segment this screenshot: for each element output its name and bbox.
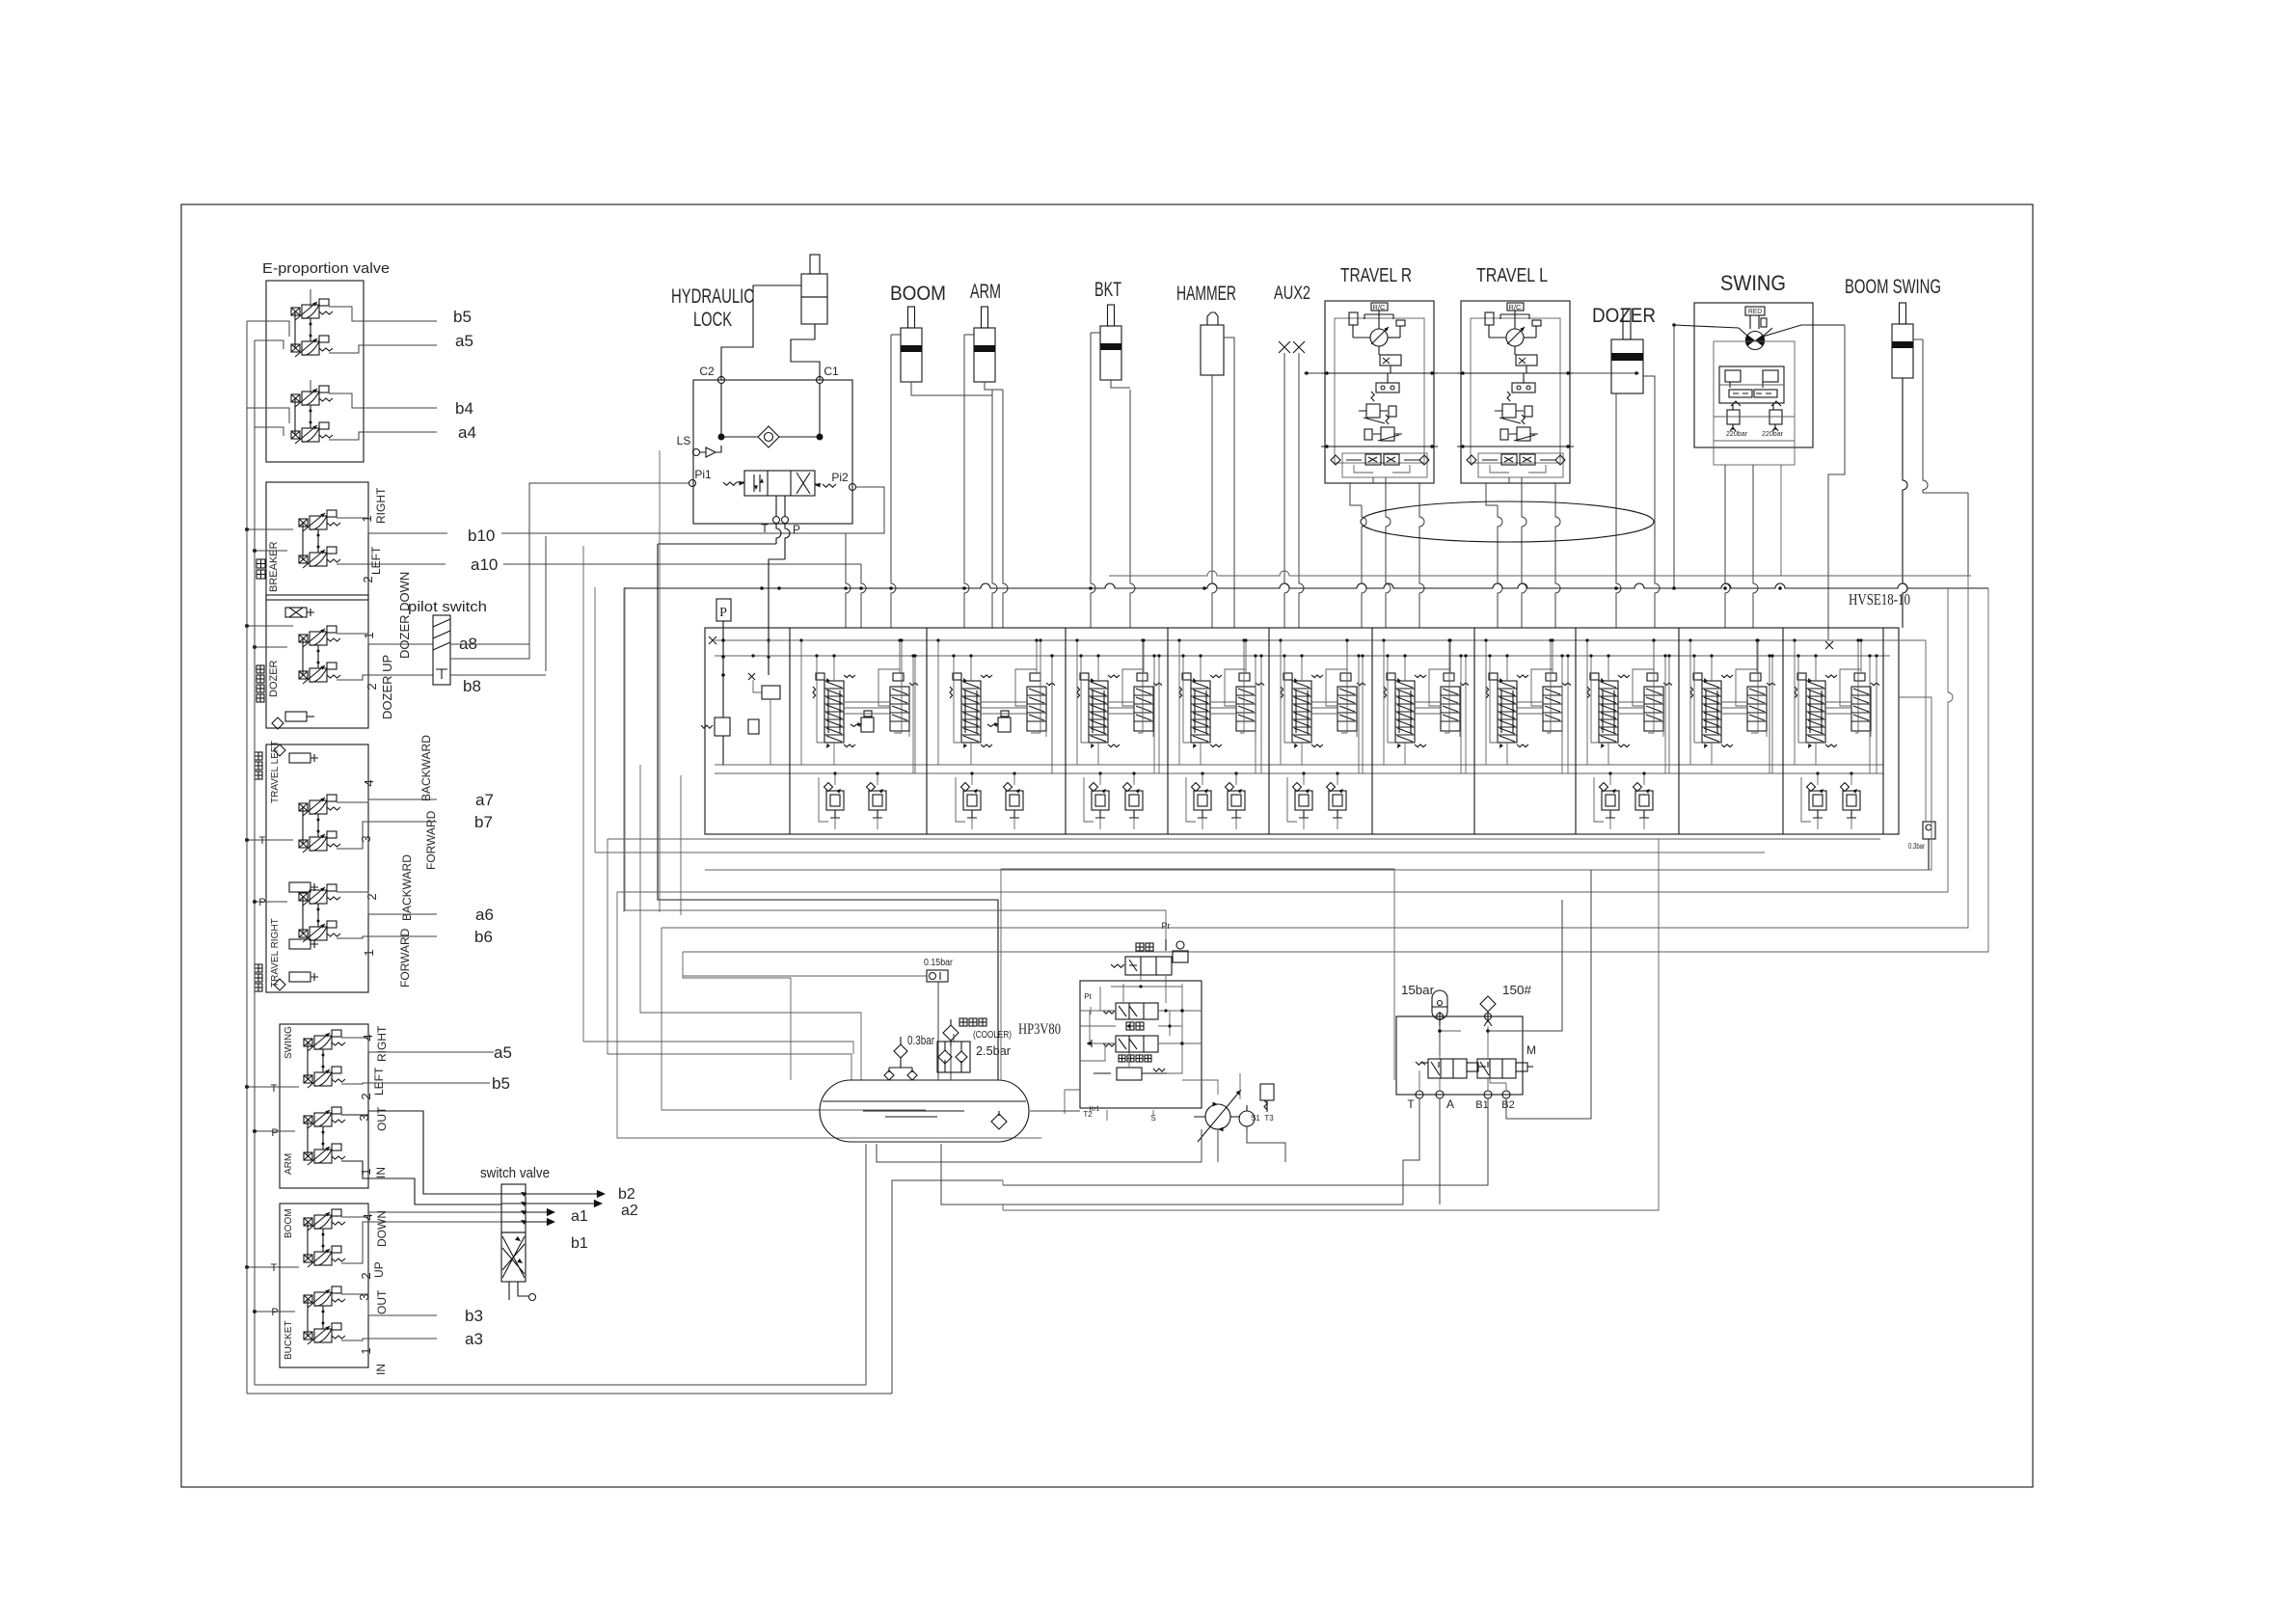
svg-text:FORWARD: FORWARD — [398, 928, 412, 988]
svg-text:DOWN: DOWN — [375, 1210, 389, 1247]
block internal wires — [1440, 1026, 1488, 1059]
svg-text:b3: b3 — [465, 1307, 483, 1325]
pump control block outer — [1001, 869, 1394, 1080]
BOOM hoses — [891, 335, 896, 628]
svg-text:AUX2: AUX2 — [1274, 284, 1310, 304]
svg-text:0.3bar: 0.3bar — [1908, 842, 1925, 851]
svg-text:2: 2 — [365, 893, 379, 900]
TRAVEL R travel motor — [1370, 329, 1388, 346]
svg-text:P: P — [258, 897, 265, 908]
section compensator x=1105 — [1134, 687, 1153, 731]
0.3bar tank relief — [1923, 822, 1935, 839]
svg-text:OUT: OUT — [375, 1289, 389, 1314]
solenoid valve 2 — [1477, 1059, 1516, 1078]
svg-text:RED: RED — [1748, 309, 1762, 315]
svg-text:S: S — [1150, 1114, 1155, 1123]
section compensator x=1423 — [1441, 687, 1460, 731]
inter travel pilot line — [1304, 372, 1321, 374]
section relief valves x=1105 — [1092, 791, 1109, 810]
svg-text:a4: a4 — [458, 423, 476, 442]
TRAVEL L counterbalance — [1478, 453, 1563, 477]
hydraulic lock cylinder — [810, 255, 820, 274]
svg-text:15bar: 15bar — [1401, 983, 1435, 997]
TRAVEL L pilot bus — [1457, 372, 1574, 374]
wires below band — [608, 838, 1880, 840]
BREAKER pilot valve block — [266, 482, 368, 600]
svg-text:switch valve: switch valve — [480, 1165, 550, 1181]
drawing border frame — [181, 204, 2033, 1487]
svg-text:220bar: 220bar — [1762, 431, 1784, 438]
TRAVEL L brake valve — [1516, 355, 1537, 365]
section relief valves x=1634 — [1602, 791, 1619, 810]
svg-text:1: 1 — [360, 515, 374, 522]
ports — [1416, 1091, 1423, 1098]
section spool x=1105 — [1089, 681, 1108, 743]
outer return loop — [1003, 839, 1659, 1210]
svg-text:RIGHT: RIGHT — [375, 1025, 389, 1062]
section compensator x=1529 — [1543, 687, 1562, 731]
svg-text:BOOM SWING: BOOM SWING — [1845, 276, 1941, 298]
svg-text:LS: LS — [677, 434, 691, 447]
svg-text:b8: b8 — [463, 677, 481, 695]
TRAVEL L travel motor — [1506, 329, 1524, 346]
TRAVEL R brake valve — [1380, 355, 1401, 365]
solenoid block — [1396, 1016, 1523, 1095]
svg-text:T: T — [761, 522, 769, 535]
svg-text:0.3bar: 0.3bar — [907, 1033, 934, 1047]
svg-text:a2: a2 — [621, 1203, 638, 1219]
section compensator x=1634 — [1644, 687, 1663, 731]
DOZER pilot valve block — [266, 595, 368, 728]
svg-text:C1: C1 — [824, 365, 839, 378]
pump relief — [1260, 1084, 1274, 1100]
svg-text:T: T — [1407, 1097, 1415, 1111]
pilot gear pump — [1239, 1111, 1255, 1126]
svg-text:M: M — [1526, 1043, 1536, 1057]
svg-text:0.15bar: 0.15bar — [924, 958, 954, 968]
svg-text:P: P — [719, 606, 727, 620]
Pi2 pilot wire — [846, 487, 884, 533]
svg-text:b10: b10 — [468, 527, 495, 545]
SWING-ARM pilot valve block — [280, 1024, 368, 1188]
wires cylinder to lock block — [721, 285, 801, 380]
svg-text:T: T — [271, 1083, 278, 1095]
svg-text:IN: IN — [374, 1167, 388, 1178]
hydraulic lock block — [693, 380, 852, 524]
swing motor — [1746, 332, 1765, 350]
svg-text:P: P — [793, 523, 800, 536]
svg-text:T: T — [259, 835, 266, 847]
pump block internal wires — [1090, 975, 1182, 1073]
svg-text:b1: b1 — [571, 1235, 588, 1252]
swing inner box — [1714, 341, 1795, 465]
svg-text:C2: C2 — [699, 365, 715, 378]
svg-text:ARM: ARM — [970, 281, 1001, 303]
solenoid valve 1 — [1428, 1059, 1467, 1078]
band inner top rails — [715, 639, 1926, 641]
Pi1 pilot wire to left — [450, 483, 689, 659]
svg-text:2: 2 — [359, 1272, 373, 1279]
svg-text:Pt: Pt — [1084, 992, 1092, 1001]
TRAVEL R outlet wires — [1373, 477, 1386, 501]
svg-text:T3: T3 — [1264, 1114, 1274, 1123]
svg-text:HVSE18-10: HVSE18-10 — [1849, 590, 1910, 609]
svg-text:IN: IN — [374, 1364, 388, 1375]
svg-text:2: 2 — [361, 576, 375, 582]
svg-text:BOOM: BOOM — [284, 1208, 294, 1238]
swing makeup network — [1719, 366, 1784, 403]
TRAVEL R lower bus — [1321, 446, 1438, 447]
P line down into inlet — [785, 524, 790, 559]
svg-text:a7: a7 — [475, 791, 494, 809]
left pilot bus wires — [246, 321, 248, 1394]
svg-text:a5: a5 — [494, 1043, 512, 1062]
descending wires left — [623, 588, 625, 912]
T wire to tank — [776, 524, 781, 544]
BOOM-BUCKET pilot valve block — [280, 1204, 368, 1367]
section spool x=961 — [961, 681, 981, 743]
swing pilot wire left — [1674, 325, 1739, 328]
pump servo piston — [1117, 1068, 1142, 1080]
svg-text:DOZER UP: DOZER UP — [380, 655, 394, 719]
power control valve — [1116, 1036, 1158, 1052]
svg-text:TRAVEL RIGHT: TRAVEL RIGHT — [270, 918, 281, 988]
svg-text:SWING: SWING — [284, 1026, 294, 1059]
swing relief valves — [1727, 410, 1740, 424]
svg-text:R/C: R/C — [1373, 305, 1386, 311]
section compensator x=1741 — [1747, 687, 1767, 731]
svg-text:Pr: Pr — [1162, 921, 1171, 931]
svg-text:b2: b2 — [618, 1186, 635, 1203]
svg-text:Pi1: Pi1 — [694, 468, 712, 481]
svg-text:BKT: BKT — [1094, 279, 1121, 301]
svg-text:(COOLER): (COOLER) — [973, 1030, 1012, 1041]
svg-text:T: T — [271, 1262, 278, 1274]
swivel joint ellipse — [1361, 501, 1654, 542]
svg-text:TRAVEL L: TRAVEL L — [1476, 265, 1548, 286]
svg-text:HYDRAULIC: HYDRAULIC — [671, 285, 754, 308]
svg-text:BOOM: BOOM — [890, 283, 946, 305]
svg-text:RIGHT: RIGHT — [374, 487, 388, 524]
svg-text:LOCK: LOCK — [693, 309, 732, 331]
inlet section internals — [716, 599, 731, 621]
svg-text:b5: b5 — [492, 1074, 510, 1093]
svg-text:P: P — [271, 1127, 278, 1139]
0.3bar breather — [894, 1044, 907, 1058]
TRAVEL R pilot bus — [1321, 372, 1438, 374]
wires from block — [1403, 1098, 1419, 1160]
BKT cylinder — [1108, 305, 1115, 326]
section spool x=1634 — [1599, 681, 1618, 743]
svg-text:220bar: 220bar — [1726, 431, 1748, 438]
section relief valves x=819 — [826, 791, 844, 810]
svg-text:P: P — [271, 1307, 278, 1318]
svg-text:S1: S1 — [1251, 1114, 1260, 1123]
band inner bottom rails — [715, 764, 1883, 766]
svg-text:TRAVEL R: TRAVEL R — [1340, 265, 1412, 286]
lock pilot spool valve — [744, 471, 815, 496]
svg-text:SWING: SWING — [1720, 271, 1786, 295]
svg-text:E-proportion valve: E-proportion valve — [262, 260, 390, 277]
svg-text:BREAKER: BREAKER — [268, 541, 280, 592]
pump internal mesh — [1080, 984, 1202, 1061]
LS port — [693, 449, 700, 456]
TRAVEL pilot valve block — [266, 744, 368, 992]
hydraulic tank — [820, 1080, 1029, 1142]
TRAVEL L relief 2 — [1517, 427, 1530, 441]
svg-text:Pi2: Pi2 — [831, 471, 849, 484]
svg-text:a5: a5 — [455, 332, 473, 350]
main pump — [1205, 1104, 1230, 1129]
long pilot drop wires — [594, 587, 596, 853]
suction line from tank — [1030, 1110, 1080, 1112]
svg-text:1: 1 — [359, 1347, 373, 1354]
svg-text:OUT: OUT — [375, 1106, 389, 1131]
svg-text:BUCKET: BUCKET — [284, 1320, 294, 1360]
svg-text:a10: a10 — [471, 555, 498, 574]
TRAVEL R relief 2 — [1381, 427, 1394, 441]
svg-text:LEFT: LEFT — [372, 1067, 386, 1096]
section compensator x=1849 — [1851, 687, 1871, 731]
svg-text:BACKWARD: BACKWARD — [400, 854, 414, 921]
T and P ports — [773, 517, 780, 524]
svg-text:a1: a1 — [571, 1208, 588, 1225]
section spool x=1316 — [1292, 681, 1311, 743]
svg-text:a3: a3 — [465, 1330, 483, 1348]
svg-text:4: 4 — [362, 779, 376, 786]
svg-text:UP: UP — [372, 1261, 386, 1278]
TRAVEL L shuttle — [1512, 383, 1535, 392]
svg-text:2: 2 — [359, 1093, 373, 1099]
pump outlet lines — [1217, 1129, 1219, 1162]
section spool x=1849 — [1806, 681, 1825, 743]
TRAVEL L outlet wires — [1509, 477, 1522, 501]
TRAVEL R counterbalance — [1342, 453, 1427, 477]
LS valve — [1116, 1003, 1158, 1019]
section relief valves x=1849 — [1809, 791, 1826, 810]
section spool x=819 — [824, 681, 844, 743]
svg-text:B2: B2 — [1501, 1099, 1514, 1111]
svg-text:TRAVEL LEFT: TRAVEL LEFT — [270, 741, 281, 803]
svg-text:1: 1 — [359, 1168, 373, 1175]
swing pilot wire right — [1763, 325, 1845, 337]
swing drop wires — [1725, 465, 1730, 628]
TRAVEL R shuttle — [1376, 383, 1399, 392]
right return wires — [705, 697, 1931, 870]
BOOM SWING cylinder — [1900, 303, 1906, 324]
svg-text:1: 1 — [362, 949, 376, 956]
section compensator x=1211 — [1236, 687, 1256, 731]
svg-text:DOZER: DOZER — [268, 660, 280, 697]
bus junction dots — [760, 586, 764, 590]
section compensator x=819 — [890, 687, 909, 731]
svg-text:b7: b7 — [474, 813, 493, 831]
svg-text:pilot switch: pilot switch — [408, 599, 487, 615]
section separators — [789, 628, 791, 834]
svg-text:HAMMER: HAMMER — [1176, 283, 1236, 305]
svg-text:FORWARD: FORWARD — [424, 810, 438, 870]
TRAVEL L lower bus — [1457, 446, 1574, 447]
section spool x=1423 — [1395, 681, 1415, 743]
TRAVEL L relief 1 — [1502, 404, 1516, 418]
section compensator x=1316 — [1337, 687, 1357, 731]
section relief valves x=1316 — [1295, 791, 1312, 810]
svg-text:150#: 150# — [1502, 983, 1532, 997]
svg-text:2.5bar: 2.5bar — [976, 1043, 1012, 1058]
svg-text:B1: B1 — [1475, 1099, 1488, 1111]
svg-text:BACKWARD: BACKWARD — [419, 735, 433, 801]
section relief valves x=961 — [963, 791, 981, 810]
section compensator x=961 — [1027, 687, 1046, 731]
svg-text:b5: b5 — [453, 308, 472, 326]
section spool x=1529 — [1498, 681, 1517, 743]
section relief valves x=1211 — [1194, 791, 1211, 810]
svg-text:b6: b6 — [474, 928, 493, 946]
section spool x=1741 — [1702, 681, 1721, 743]
svg-text:LEFT: LEFT — [369, 546, 383, 575]
ARM cylinder — [982, 307, 988, 328]
bottom return wires — [247, 1393, 892, 1394]
svg-text:2: 2 — [365, 683, 379, 690]
main return bus line — [624, 583, 1988, 588]
BOOM cylinder — [908, 307, 915, 328]
svg-text:b4: b4 — [455, 399, 473, 418]
cooler symbol — [943, 1025, 959, 1041]
svg-text:ARM: ARM — [284, 1153, 294, 1175]
lock internals: pilot check valves — [720, 384, 722, 437]
svg-text:T2: T2 — [1083, 1110, 1093, 1119]
svg-text:a6: a6 — [475, 906, 494, 924]
section spool x=1211 — [1191, 681, 1210, 743]
2.5bar filter — [937, 1042, 970, 1072]
secondary pilot bus — [1109, 571, 1971, 576]
svg-text:A: A — [1446, 1097, 1454, 1111]
svg-text:HP3V80: HP3V80 — [1018, 1021, 1061, 1038]
svg-text:R/C: R/C — [1509, 305, 1522, 311]
TRAVEL R relief 1 — [1366, 404, 1380, 418]
svg-text:3: 3 — [359, 835, 373, 842]
